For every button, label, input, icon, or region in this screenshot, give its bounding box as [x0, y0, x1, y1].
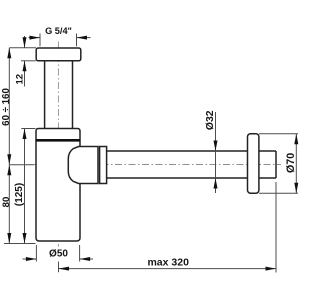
- collar joint thick line: [36, 139, 80, 142]
- svg-text:G 5/4": G 5/4": [45, 26, 72, 36]
- dimension Ø70 extension bottom: [259, 192, 298, 194]
- outlet pipe bottom edge: [107, 177, 276, 179]
- dimension 12 lower tail: [24, 61, 26, 87]
- arrow (125) top: [23, 129, 27, 140]
- dimension G 5/4" extension line left: [39, 34, 41, 47]
- outlet pipe top edge: [107, 150, 276, 152]
- dimension 12 upper tail: [24, 36, 26, 48]
- arrow Ø70 bottom: [294, 183, 298, 194]
- dimension G 5/4" line left tail: [29, 37, 41, 39]
- dimension 80 line: [8, 165, 10, 244]
- top flange nut G5/4: [36, 48, 81, 61]
- dimension Ø50 extension left: [35, 245, 37, 262]
- dimension Ø50 line right tail: [80, 258, 93, 260]
- dimension Ø70 extension top: [259, 133, 298, 135]
- svg-text:12: 12: [15, 74, 26, 85]
- svg-text:60 ÷ 160: 60 ÷ 160: [1, 88, 12, 126]
- arrow Ø50 right: [80, 257, 91, 261]
- arrow 80 bottom: [7, 233, 11, 244]
- arrow max320 right: [266, 267, 277, 271]
- dimension max 320 line: [59, 268, 277, 270]
- outlet nut: [100, 147, 107, 184]
- extension line flange bottom: [21, 60, 36, 62]
- dimension (125) line: [24, 129, 26, 244]
- wire: horizontal centerline of outlet pipe: [34, 164, 281, 166]
- arrow (125) bottom: [23, 233, 27, 244]
- extension line cup bottom: [4, 243, 36, 245]
- wire: vertical centerline of inlet pipe: [57, 42, 59, 247]
- elbow outlet bullet: [68, 147, 98, 184]
- arrow G5/4 left: [30, 36, 41, 40]
- arrow Ø32 bottom: [214, 178, 218, 189]
- arrow Ø50 left: [26, 257, 37, 261]
- arrow 12 top: [23, 37, 27, 48]
- arrow 60÷160 bottom: [7, 154, 11, 165]
- dimension G 5/4" extension line right: [76, 34, 78, 47]
- svg-text:Ø50: Ø50: [49, 249, 68, 260]
- cup body of trap: [36, 129, 80, 242]
- dimension Ø32 line: [215, 112, 217, 193]
- arrow G5/4 right: [77, 36, 88, 40]
- dimension Ø50 line left tail: [23, 258, 37, 260]
- wall flange escutcheon: [248, 134, 259, 194]
- svg-text:Ø32: Ø32: [205, 110, 216, 130]
- arrow max320 left: [59, 267, 70, 271]
- svg-text:80: 80: [1, 197, 12, 208]
- dimension max 320 left tick: [58, 262, 60, 273]
- svg-text:(125): (125): [14, 183, 25, 206]
- dimension Ø50 extension right: [79, 245, 81, 262]
- arrow Ø70 top: [294, 134, 298, 145]
- dimension Ø70 line: [295, 134, 297, 194]
- arrow 80 top: [7, 165, 11, 176]
- inlet pipe left edge: [44, 61, 46, 129]
- dimension G 5/4" line right tail: [77, 37, 91, 39]
- extension line pipe axis left: [9, 164, 34, 166]
- arrow 60÷160 top: [7, 48, 11, 59]
- dimension 60÷160 line: [8, 48, 10, 165]
- arrow Ø32 top: [214, 141, 218, 152]
- dimension max 320 right extension: [275, 182, 277, 273]
- extension line flange top (shared by 12 and 60÷160): [9, 47, 36, 49]
- arrow 12 bottom: [23, 61, 27, 72]
- svg-text:max 320: max 320: [147, 256, 189, 268]
- outlet pipe end edge: [275, 151, 277, 178]
- extension line collar top: [21, 128, 35, 130]
- svg-text:Ø70: Ø70: [285, 153, 297, 173]
- inlet pipe right edge: [72, 61, 74, 129]
